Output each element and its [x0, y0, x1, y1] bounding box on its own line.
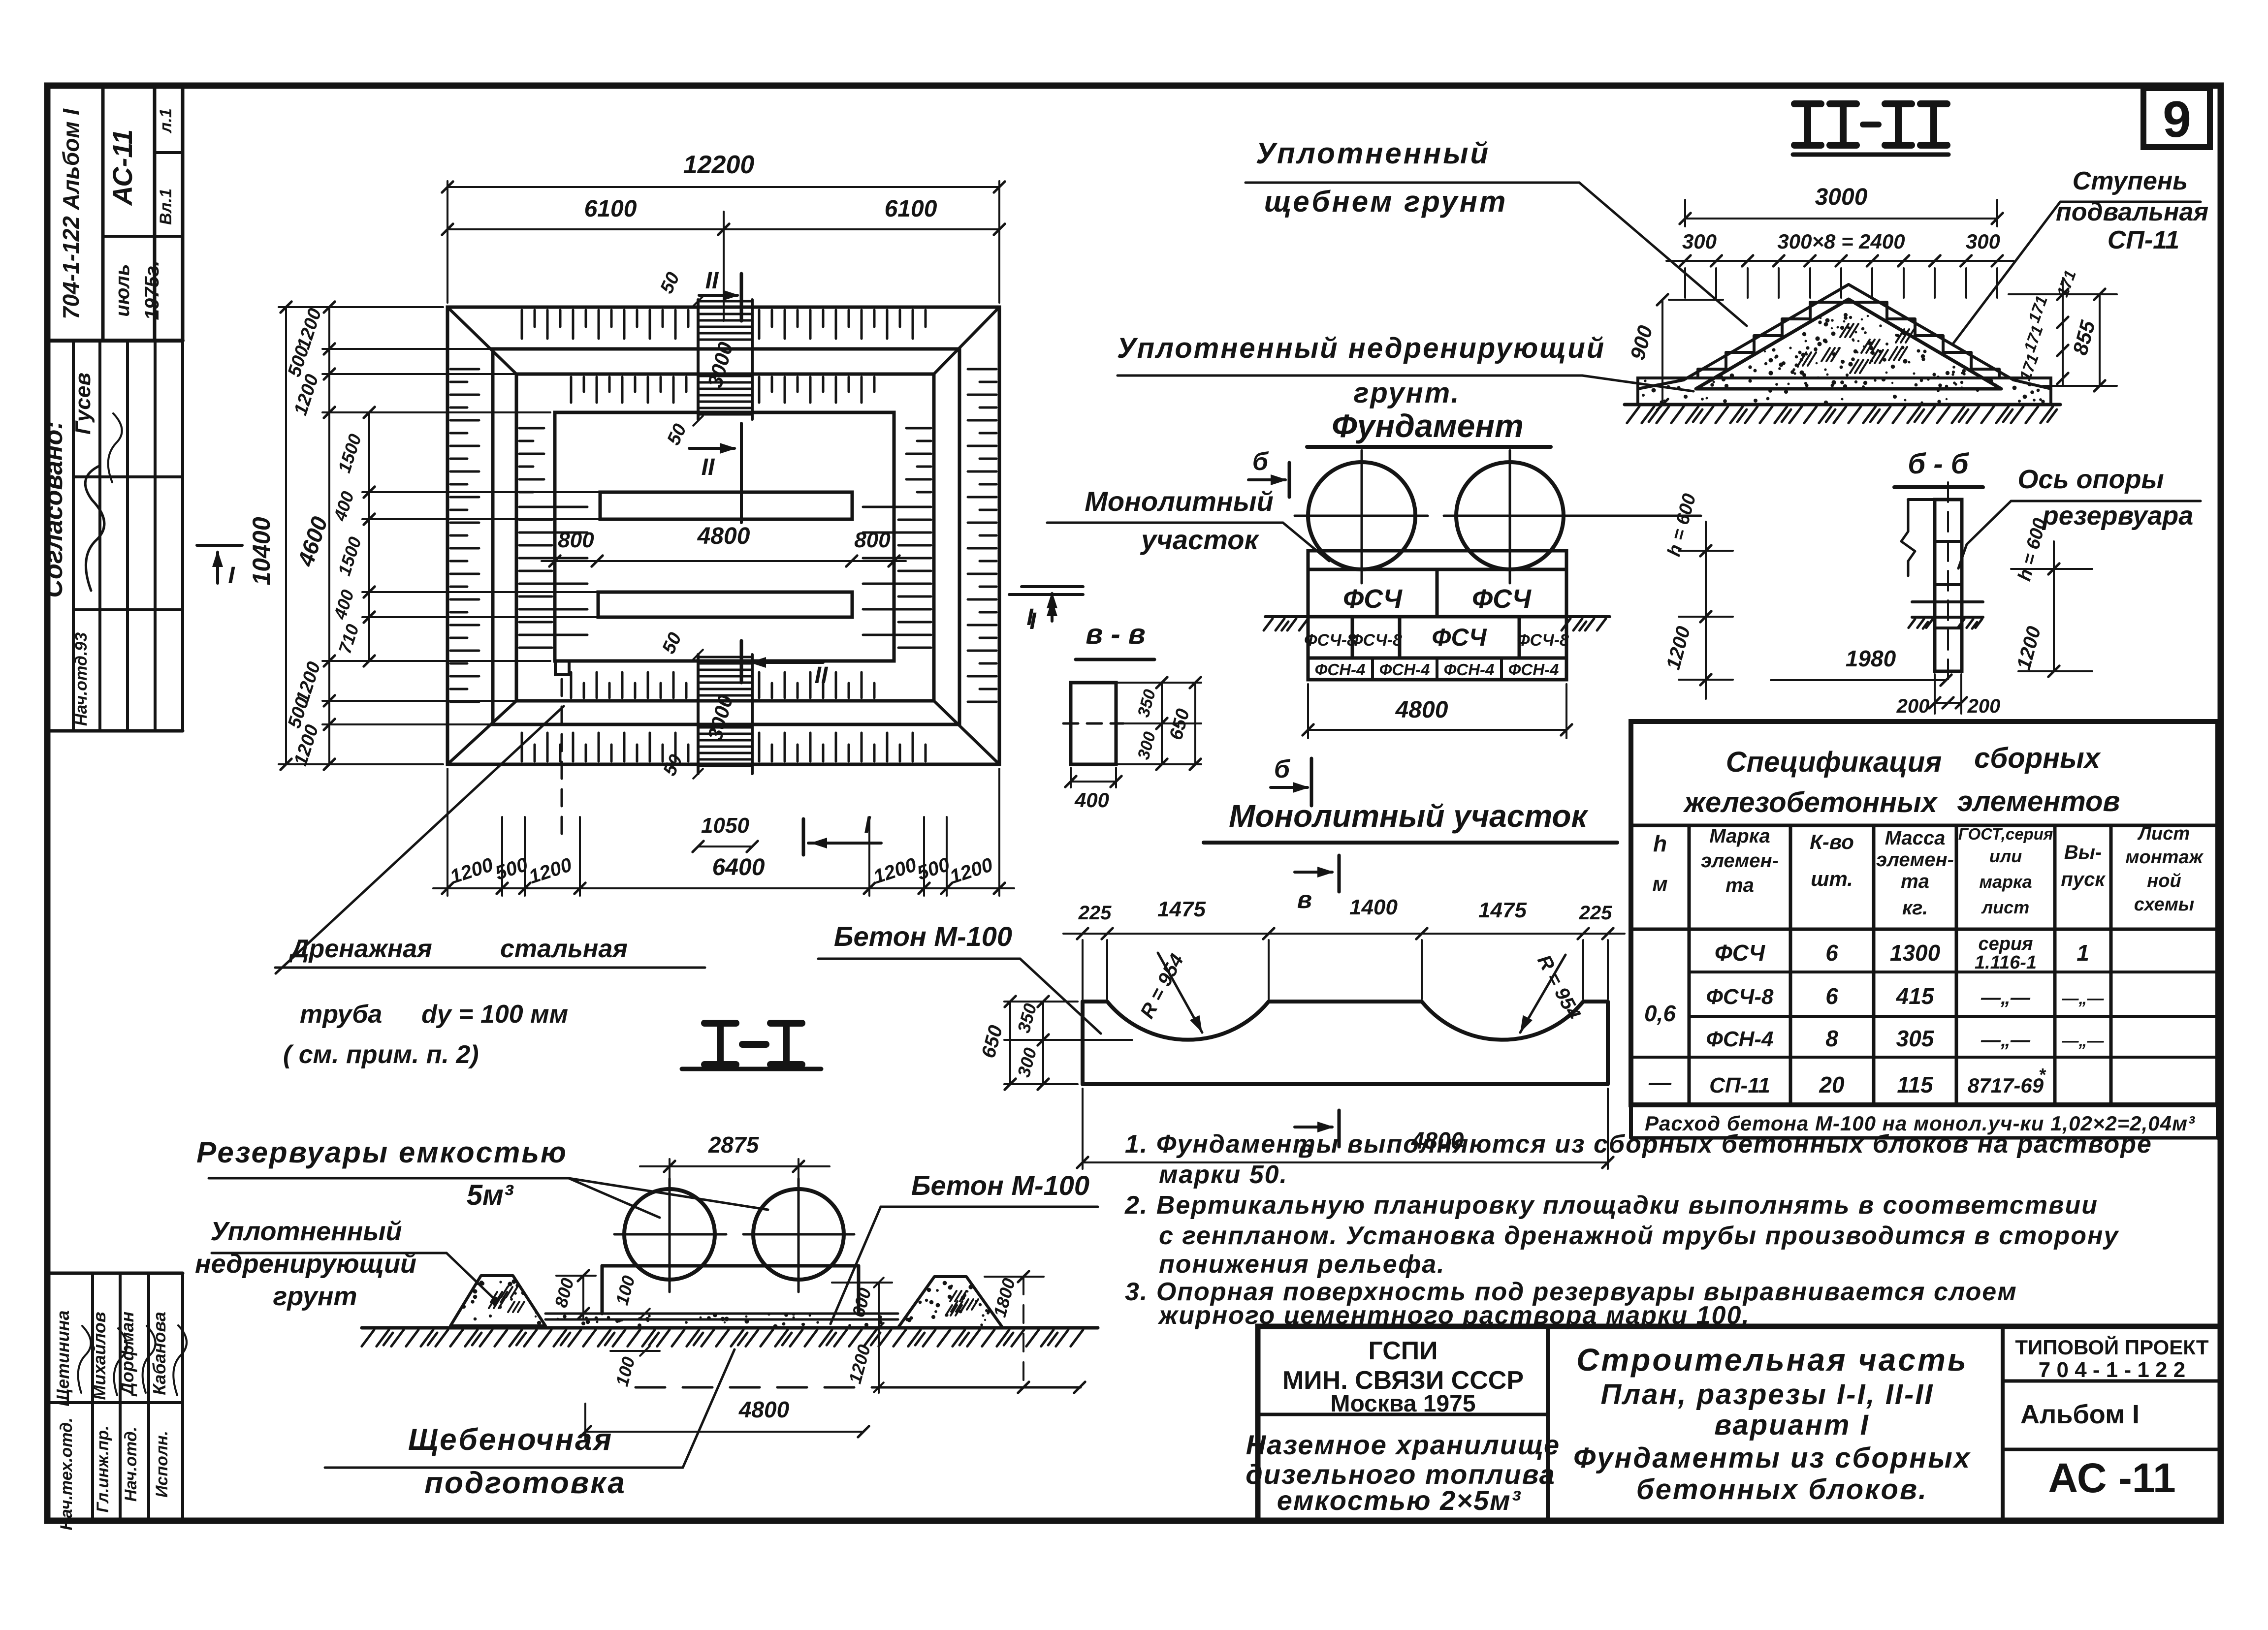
II-II left steps: [1698, 302, 1999, 378]
svg-text:4800: 4800: [1395, 697, 1448, 723]
svg-text:труба: труба: [300, 1000, 382, 1029]
svg-text:Нач.отд.93: Нач.отд.93: [72, 632, 91, 726]
svg-text:1475: 1475: [1157, 897, 1206, 921]
II-II ground line: [1625, 403, 2060, 407]
foundation block row ФСН-4: [1308, 658, 1566, 680]
I-I left berm: [450, 1276, 545, 1326]
svg-text:Москва 1975: Москва 1975: [1330, 1391, 1475, 1417]
б-б dim 1980: [1771, 679, 1946, 681]
svg-text:7 0 4 - 1 - 1 2 2: 7 0 4 - 1 - 1 2 2: [2039, 1358, 2185, 1382]
I-I dims 600 1200 right: [832, 1282, 892, 1284]
svg-text:железобетонных: железобетонных: [1683, 786, 1939, 818]
plan view: berm crest inner rectangle: [516, 374, 934, 701]
svg-text:ФСЧ-8: ФСЧ-8: [1517, 631, 1569, 650]
svg-text:Щебеночная: Щебеночная: [408, 1423, 613, 1457]
svg-text:I: I: [864, 812, 871, 838]
drain pipe leader line: [276, 706, 564, 973]
I-I foundation slab: [601, 1266, 604, 1314]
svg-text:h: h: [1653, 831, 1667, 856]
section mark II lower inner: [740, 641, 743, 683]
plan slope hatching top inner band: [571, 377, 686, 403]
svg-text:Вы-: Вы-: [2064, 842, 2102, 863]
svg-text:Ось опоры: Ось опоры: [2017, 465, 2164, 494]
II-II dim 900: [1669, 299, 1723, 301]
svg-text:*: *: [2039, 1065, 2046, 1085]
svg-text:6100: 6100: [584, 196, 637, 222]
svg-text:АС -11: АС -11: [2048, 1455, 2175, 1501]
б-б break line: [1901, 500, 1915, 576]
б-б ledge (ФСН block): [1912, 600, 1983, 603]
svg-text:б - б: б - б: [1908, 448, 1969, 480]
svg-text:305: 305: [1896, 1026, 1935, 1051]
svg-text:Нач.тех.отд.: Нач.тех.отд.: [57, 1417, 76, 1530]
svg-text:ФСЧ: ФСЧ: [1432, 624, 1487, 651]
plan slope hatching bottom inner band: [571, 672, 686, 698]
svg-text:1050: 1050: [701, 814, 749, 838]
svg-text:ФСН-4: ФСН-4: [1379, 660, 1430, 679]
svg-text:1: 1: [2076, 940, 2089, 966]
svg-text:АС-11: АС-11: [107, 129, 138, 207]
svg-text:марка: марка: [1979, 872, 2032, 892]
dimension 6100+6100: [723, 212, 725, 321]
svg-text:0,6: 0,6: [1644, 1001, 1676, 1026]
svg-text:300: 300: [1682, 230, 1717, 253]
svg-text:Михайлов: Михайлов: [89, 1312, 109, 1400]
svg-text:ГСПИ: ГСПИ: [1368, 1337, 1437, 1365]
II-II dim 3000: [1684, 200, 1686, 226]
б-б right dims h=600 1200: [2011, 568, 2092, 570]
svg-text:6400: 6400: [712, 854, 765, 880]
foundation bar 1 (plan): [600, 492, 852, 519]
svg-text:704-1-122 Альбом I: 704-1-122 Альбом I: [58, 108, 84, 319]
section mark II upper inner: [689, 447, 735, 450]
svg-text:6: 6: [1825, 983, 1838, 1009]
svg-text:та: та: [1725, 875, 1754, 896]
R=954 leaders: [1158, 953, 1202, 1033]
svg-text:Резервуары емкостью: Резервуары емкостью: [196, 1136, 568, 1169]
dimension 10400 (plan left): [279, 306, 443, 308]
foundation dim 4800: [1307, 684, 1309, 738]
б-б block column: [1935, 500, 1962, 671]
section mark б top: [1288, 463, 1291, 497]
в-в section rectangle: [1071, 683, 1116, 764]
svg-text:ФСН-4: ФСН-4: [1706, 1027, 1773, 1051]
svg-text:ФСЧ-8: ФСЧ-8: [1304, 631, 1356, 650]
svg-text:июль: июль: [112, 264, 133, 316]
svg-text:415: 415: [1896, 983, 1935, 1009]
svg-text:элемен-: элемен-: [1701, 850, 1779, 872]
II-II base strip: [1638, 378, 2051, 405]
svg-text:1980: 1980: [1846, 646, 1896, 671]
svg-text:б: б: [1252, 447, 1269, 476]
plan view: berm crest outer rectangle: [493, 349, 959, 724]
dimension 1050 (stair): [698, 846, 752, 847]
svg-text:4800: 4800: [697, 523, 750, 549]
svg-text:2875: 2875: [708, 1132, 760, 1158]
svg-text:Гл.инж.пр.: Гл.инж.пр.: [94, 1426, 112, 1513]
svg-text:м: м: [1652, 872, 1667, 895]
section mark в top: [1295, 871, 1332, 874]
svg-text:ФСЧ: ФСЧ: [1343, 584, 1403, 614]
II-II embankment core: [1696, 299, 2001, 389]
svg-text:I: I: [228, 563, 235, 589]
svg-text:ФСЧ: ФСЧ: [1472, 584, 1532, 614]
svg-text:dу = 100 мм: dу = 100 мм: [421, 1000, 568, 1029]
svg-text:8717-69: 8717-69: [1968, 1074, 2044, 1097]
monolithic block profile: [1083, 1002, 1608, 1084]
svg-text:800: 800: [854, 528, 891, 552]
monolithic left dims 350 300 650: [1004, 1001, 1078, 1003]
svg-text:понижения рельефа.: понижения рельефа.: [1159, 1250, 1445, 1279]
plan inner left dim chain (bars): [362, 491, 600, 493]
specification table: [1631, 721, 2218, 1105]
svg-text:1475: 1475: [1478, 898, 1527, 922]
svg-text:200: 200: [1967, 695, 2001, 717]
II-II slope slab lines: [1684, 284, 1849, 380]
svg-text:Уплотненный недренирующий: Уплотненный недренирующий: [1117, 332, 1605, 364]
foundation block row ФСЧ: [1308, 569, 1566, 617]
svg-text:кг.: кг.: [1902, 897, 1928, 919]
svg-text:—„—: —„—: [2062, 1032, 2105, 1050]
I-I tanks: [624, 1189, 715, 1280]
svg-text:300: 300: [1966, 230, 2000, 253]
svg-text:5м³: 5м³: [467, 1179, 514, 1211]
section mark в bottom: [1295, 1126, 1332, 1128]
dimension 800 4800 800 (pit): [542, 560, 906, 562]
svg-text:Исполн.: Исполн.: [153, 1431, 171, 1498]
section mark I (foundation): [1009, 593, 1083, 596]
stamp column bottom box: [47, 1272, 183, 1275]
plan slope hatching left inner band: [519, 428, 544, 492]
в-в dims 650 350 300: [1116, 682, 1201, 684]
plan view: outer berm toe rectangle: [447, 307, 999, 764]
plan view: pit rectangle: [555, 412, 894, 661]
svg-text:—„—: —„—: [1981, 1029, 2031, 1051]
svg-text:или: или: [1989, 846, 2022, 866]
svg-text:Согласовано:: Согласовано:: [39, 421, 68, 597]
svg-text:монтаж: монтаж: [2125, 847, 2204, 868]
stamp column approval section: [72, 341, 75, 731]
svg-text:12200: 12200: [683, 151, 755, 179]
svg-text:—„—: —„—: [1981, 987, 2031, 1008]
svg-text:6: 6: [1825, 940, 1838, 966]
svg-text:Лист: Лист: [2137, 823, 2190, 844]
svg-text:грунт: грунт: [273, 1282, 357, 1311]
svg-text:шт.: шт.: [1811, 867, 1853, 890]
II-II dim chain 300x8: [1666, 260, 2013, 262]
svg-text:800: 800: [558, 528, 594, 552]
svg-text:225: 225: [1579, 902, 1612, 924]
svg-text:серия: серия: [1978, 934, 2033, 954]
svg-text:ФСЧ: ФСЧ: [1715, 940, 1766, 966]
svg-text:стальная: стальная: [500, 935, 628, 963]
svg-text:Нач.отд.: Нач.отд.: [122, 1427, 140, 1502]
dimension 12200 (plan top): [447, 181, 448, 303]
plan corner mitre lines: [447, 307, 516, 374]
tank circle 2 (end view): [1456, 462, 1564, 569]
I-I gravel base strip: [545, 1318, 898, 1321]
svg-text:II: II: [705, 268, 719, 294]
svg-text:Фундаменты из сборных: Фундаменты из сборных: [1573, 1442, 1971, 1474]
I-I dim 4800: [584, 1404, 586, 1440]
svg-text:Наземное хранилище: Наземное хранилище: [1246, 1429, 1560, 1460]
foundation ground ledges: [1265, 615, 1308, 618]
foundation block row ФСЧ-8: [1308, 617, 1566, 658]
svg-text:9: 9: [2163, 91, 2191, 148]
plan left dim chain: [322, 348, 493, 350]
svg-text:200: 200: [1896, 695, 1930, 717]
svg-text:1300: 1300: [1890, 940, 1941, 966]
svg-text:II: II: [815, 662, 829, 689]
svg-text:3000: 3000: [1815, 184, 1868, 210]
svg-text:4800: 4800: [738, 1397, 790, 1422]
svg-text:марки 50.: марки 50.: [1159, 1160, 1288, 1189]
svg-text:Монолитный: Монолитный: [1085, 486, 1274, 517]
stamp signatures bottom: [78, 1326, 91, 1393]
plan slope hatching right inner band: [906, 428, 931, 492]
svg-text:Фундамент: Фундамент: [1332, 407, 1524, 444]
svg-text:схемы: схемы: [2134, 894, 2195, 915]
svg-text:Дренажная: Дренажная: [288, 935, 432, 963]
I-I dim 100 100: [610, 1313, 660, 1315]
svg-text:10400: 10400: [248, 517, 275, 585]
monolithic bottom dim 4800: [1082, 1089, 1084, 1169]
svg-text:Строительная часть: Строительная часть: [1576, 1342, 1968, 1378]
svg-text:подготовка: подготовка: [424, 1466, 626, 1500]
svg-text:резервуара: резервуара: [2042, 501, 2194, 531]
I-I dashed reference line: [636, 1386, 879, 1389]
svg-text:II: II: [702, 454, 715, 480]
I-I dim 1800 right berm: [985, 1276, 1044, 1278]
svg-text:Уплотненный: Уплотненный: [210, 1217, 402, 1246]
section title I-I: [704, 1020, 736, 1027]
section title II-II: [1794, 100, 1821, 107]
в-в dim 400: [1071, 781, 1116, 783]
svg-text:1975г.: 1975г.: [141, 261, 163, 320]
svg-text:Марка: Марка: [1709, 825, 1770, 847]
sheet number box 9: [2143, 88, 2210, 147]
svg-text:300×8 = 2400: 300×8 = 2400: [1777, 230, 1905, 253]
svg-text:б: б: [1274, 755, 1291, 784]
svg-text:115: 115: [1897, 1072, 1934, 1097]
svg-text:Монолитный участок: Монолитный участок: [1229, 798, 1589, 834]
plan slope hatching left outer band: [450, 369, 479, 702]
plan slope hatching right outer band: [968, 369, 996, 702]
foundation top slab: [1308, 551, 1566, 569]
I-I dim 2875: [640, 1165, 830, 1167]
svg-text:л.1: л.1: [157, 108, 175, 134]
svg-text:ФСН-4: ФСН-4: [1315, 660, 1366, 679]
tank circle 1 (end view): [1308, 462, 1415, 569]
svg-text:в: в: [1297, 886, 1312, 913]
svg-text:Бетон М-100: Бетон М-100: [911, 1170, 1089, 1201]
svg-text:20: 20: [1819, 1072, 1845, 1097]
svg-text:сборных: сборных: [1974, 742, 2102, 774]
section mark I left: [197, 544, 242, 547]
section mark I right: [1022, 585, 1083, 588]
svg-text:в - в: в - в: [1086, 618, 1146, 650]
foundation right dim chain h600 1200: [1679, 550, 1733, 552]
title block: [1258, 1326, 2221, 1521]
plan slope hatching top outer band: [522, 310, 688, 339]
stamp column top box: [101, 86, 105, 341]
svg-text:с генпланом. Установка дрен: с генпланом. Установка дренажной трубы п…: [1159, 1222, 2119, 1250]
svg-text:К-во: К-во: [1810, 830, 1854, 853]
svg-text:СП-11: СП-11: [2108, 226, 2179, 254]
svg-text:ФСН-4: ФСН-4: [1508, 660, 1559, 679]
svg-text:СП-11: СП-11: [1709, 1073, 1770, 1097]
svg-text:План, разрезы I-I, II-II: План, разрезы I-I, II-II: [1600, 1379, 1934, 1411]
svg-text:—„—: —„—: [2062, 989, 2105, 1008]
svg-text:лист: лист: [1981, 897, 2029, 917]
section mark б bottom: [1310, 758, 1313, 806]
I-I ground line: [362, 1326, 1098, 1330]
svg-text:ТИПОВОЙ ПРОЕКТ: ТИПОВОЙ ПРОЕКТ: [2015, 1335, 2209, 1359]
svg-text:ФСН-4: ФСН-4: [1444, 660, 1495, 679]
svg-text:пуск: пуск: [2061, 869, 2106, 890]
svg-text:Гусев: Гусев: [71, 373, 95, 435]
svg-text:элементов: элементов: [1957, 785, 2120, 817]
svg-text:ГОСТ,серия: ГОСТ,серия: [1958, 825, 2053, 843]
svg-text:ФСЧ-8: ФСЧ-8: [1706, 985, 1774, 1009]
II-II right dims 171 855: [2009, 293, 2117, 295]
stair strip bottom (plan): [697, 655, 700, 774]
svg-text:8: 8: [1825, 1026, 1838, 1051]
svg-text:та: та: [1901, 871, 1929, 892]
svg-text:Масса: Масса: [1885, 827, 1946, 849]
svg-text:—: —: [1648, 1069, 1672, 1095]
svg-text:Вл.1: Вл.1: [157, 188, 175, 225]
svg-text:бетонных блоков.: бетонных блоков.: [1636, 1473, 1928, 1505]
svg-text:1.116-1: 1.116-1: [1975, 952, 2037, 973]
svg-text:Дорфман: Дорфман: [117, 1312, 137, 1397]
svg-text:2. Вертикальную планировку: 2. Вертикальную планировку площадки выпо…: [1124, 1191, 2098, 1220]
svg-text:элемен-: элемен-: [1876, 849, 1954, 871]
foundation bar 2 (plan): [598, 592, 852, 617]
svg-text:Щетинина: Щетинина: [53, 1310, 73, 1406]
svg-text:ной: ной: [2147, 871, 2181, 891]
svg-text:1. Фундаменты выполняются из: 1. Фундаменты выполняются из сборных бет…: [1125, 1130, 2152, 1159]
svg-text:( см. прим. п. 2): ( см. прим. п. 2): [283, 1040, 479, 1069]
svg-text:Уплотненный: Уплотненный: [1256, 137, 1490, 170]
svg-text:вариант I: вариант I: [1714, 1409, 1869, 1441]
svg-text:I: I: [1026, 604, 1034, 630]
svg-text:Бетон М-100: Бетон М-100: [834, 921, 1012, 952]
svg-text:1400: 1400: [1349, 895, 1398, 919]
svg-text:Альбом I: Альбом I: [2020, 1400, 2140, 1429]
stair strip top (plan): [697, 300, 700, 419]
section mark II top: [740, 274, 743, 321]
svg-text:грунт.: грунт.: [1353, 377, 1460, 409]
plan slope hatching bottom outer band: [522, 733, 688, 761]
monolithic top dim chain: [1063, 933, 1625, 935]
svg-text:400: 400: [1074, 788, 1109, 812]
svg-text:ФСЧ-8: ФСЧ-8: [1350, 631, 1402, 650]
svg-text:щебнем грунт: щебнем грунт: [1264, 185, 1508, 218]
svg-text:участок: участок: [1140, 524, 1259, 555]
I-I dim 800 left berm: [556, 1275, 596, 1277]
plan bottom dim chain: [447, 769, 448, 896]
svg-text:Спецификация: Спецификация: [1726, 746, 1942, 778]
svg-text:225: 225: [1078, 902, 1112, 924]
svg-text:емкостью 2×5м³: емкостью 2×5м³: [1277, 1485, 1521, 1516]
б-б dims 200 200: [1935, 702, 1961, 704]
I-I right berm: [898, 1277, 1003, 1328]
drain pipe marker (plan): [555, 661, 569, 675]
section mark I bottom: [802, 819, 805, 855]
svg-text:6100: 6100: [885, 196, 937, 222]
svg-text:Ступень: Ступень: [2073, 167, 2188, 195]
